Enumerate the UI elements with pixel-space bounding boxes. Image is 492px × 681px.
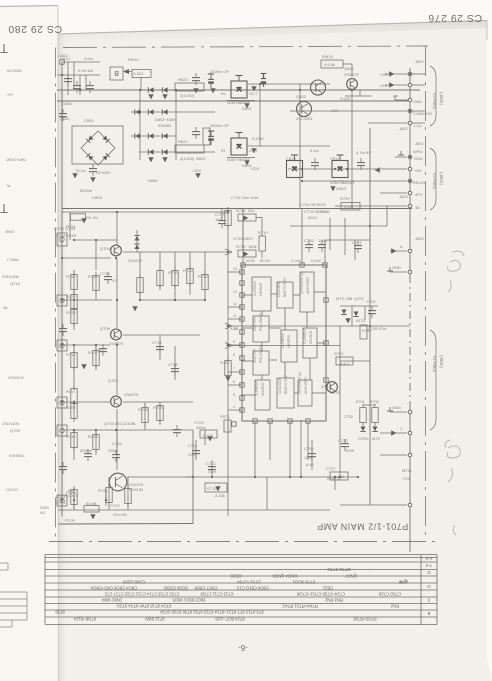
svg-text:13: 13	[233, 290, 237, 294]
svg-text:C713: C713	[56, 500, 66, 505]
svg-text:A 470: A 470	[203, 433, 214, 438]
svg-text:BOOTSTRAP: BOOTSTRAP	[283, 277, 287, 297]
svg-text:51mB: 51mB	[86, 501, 97, 506]
svg-text:QT06: QT06	[100, 326, 111, 331]
svg-text:-0.1mV: -0.1mV	[290, 259, 302, 263]
svg-text:+B4: +B4	[414, 168, 422, 173]
svg-text:R715: R715	[207, 486, 217, 491]
svg-text:DIFFERENTIAL: DIFFERENTIAL	[298, 371, 302, 394]
svg-text:OO/CD: OO/CD	[6, 488, 18, 492]
svg-text:C726 06 R022: C726 06 R022	[300, 202, 327, 207]
svg-text:R724: R724	[183, 268, 193, 273]
svg-text:GND: GND	[413, 99, 422, 104]
svg-text:MIRROR: MIRROR	[259, 282, 263, 296]
svg-text:OUT: OUT	[249, 91, 258, 96]
svg-text:NJM79M05F: NJM79M05F	[227, 157, 250, 162]
svg-text:A 4.7: A 4.7	[340, 361, 350, 366]
svg-text:O5O5: O5O5	[230, 574, 242, 579]
svg-text:51k: 51k	[248, 208, 254, 213]
svg-text:OTTO 9TTO: OTTO 9TTO	[327, 567, 351, 572]
svg-text:NF: NF	[2, 306, 8, 310]
svg-text:OTRL: OTRL	[358, 436, 369, 441]
svg-text:C707: C707	[326, 466, 336, 471]
svg-text:8T24 8OT~1O8: 8T24 8OT~1O8	[215, 617, 245, 622]
svg-text:14: 14	[233, 267, 237, 271]
svg-text:BOOTSTRAP: BOOTSTRAP	[284, 374, 288, 394]
svg-text:Q705 2SC2240BL: Q705 2SC2240BL	[104, 421, 137, 426]
svg-text:CS 29 276: CS 29 276	[428, 12, 482, 24]
svg-text:(J801): (J801)	[439, 172, 444, 185]
svg-text:AMPLIFIER: AMPLIFIER	[306, 276, 310, 294]
svg-text:QT09: QT09	[10, 428, 21, 433]
svg-text:+22V: +22V	[192, 168, 202, 173]
svg-text:9TO4 9T18 9TW~9T3A 9T2O: 9TO4 9T18 9TW~9T3A 9T2O	[116, 604, 172, 609]
svg-text:+51.5V: +51.5V	[85, 215, 98, 220]
svg-text:A-V: A-V	[425, 556, 432, 561]
svg-text:GND: GND	[392, 265, 401, 270]
svg-text:QT8: QT8	[399, 580, 408, 585]
svg-text:P701-1/2 MAIN AMP: P701-1/2 MAIN AMP	[317, 522, 409, 532]
svg-text:BTZ1: BTZ1	[356, 318, 367, 323]
svg-text:A 324: A 324	[133, 71, 144, 76]
svg-text:9: 9	[233, 340, 235, 344]
svg-text:CURRENT: CURRENT	[253, 280, 257, 296]
svg-text:10: 10	[233, 327, 237, 331]
svg-text:D802~D809: D802~D809	[155, 117, 177, 122]
svg-text:FOLLOWER: FOLLOWER	[259, 312, 263, 331]
svg-text:CURRENT: CURRENT	[255, 380, 259, 396]
svg-text:7: 7	[233, 367, 235, 371]
svg-text:C723 C715 C714 C721 C722 C717: C723 C715 C714 C721 C722 C717 C72	[104, 592, 179, 597]
svg-text:+22V: +22V	[250, 166, 260, 171]
svg-text:SOURCE: SOURCE	[261, 382, 265, 396]
svg-text:22m: 22m	[208, 469, 216, 474]
svg-text:9T12 9W9: 9T12 9W9	[145, 617, 165, 622]
svg-text:C80b: C80b	[62, 101, 72, 106]
svg-text:EMITTER: EMITTER	[253, 316, 257, 331]
svg-text:2SD678: 2SD678	[344, 72, 359, 77]
svg-text:QT10: QT10	[10, 281, 21, 286]
svg-text:C802: C802	[58, 53, 68, 58]
svg-text:S1+B20: S1+B20	[96, 170, 111, 175]
svg-text:9T35: 9T35	[55, 610, 65, 615]
svg-text:C758: C758	[304, 446, 314, 451]
svg-text:RTN4+RT21 RT4G: RTN4+RT21 RT4G	[282, 604, 318, 609]
svg-text:6: 6	[233, 380, 235, 384]
svg-text:Q803: Q803	[296, 94, 307, 99]
svg-text:C719: C719	[112, 441, 122, 446]
svg-text:99O3 99O1 99O5: 99O3 99O1 99O5	[172, 598, 206, 603]
svg-text:SOURCE: SOURCE	[309, 330, 313, 344]
svg-text:C80A: C80A	[92, 195, 102, 200]
svg-text:C724~C728 C7O1~C7O8: C724~C728 C7O1~C7O8	[296, 592, 345, 597]
svg-text:C810: C810	[286, 156, 296, 161]
svg-text:2SD1406: 2SD1406	[2, 274, 19, 279]
svg-text:C774: C774	[352, 240, 362, 245]
svg-text:0.6: 0.6	[112, 278, 118, 283]
svg-text:RM15: RM15	[322, 54, 333, 59]
svg-text:103: 103	[188, 452, 195, 457]
svg-text:4.7m 6V: 4.7m 6V	[356, 150, 371, 155]
svg-text:A 6.8k: A 6.8k	[324, 62, 335, 67]
svg-text:C724 22m 6.66: C724 22m 6.66	[231, 195, 259, 200]
svg-text:R721: R721	[98, 488, 108, 493]
svg-text:D80b: D80b	[148, 178, 158, 183]
svg-text:8: 8	[233, 353, 235, 357]
svg-text:OO99 O3OO: OO99 O3OO	[163, 586, 188, 591]
svg-text:2SA970: 2SA970	[128, 258, 143, 263]
svg-text:R725: R725	[168, 270, 178, 275]
svg-text:+5.1A: +5.1A	[75, 168, 86, 173]
svg-text:0(1/2W): 0(1/2W)	[180, 156, 195, 161]
svg-text:CASCODE: CASCODE	[278, 378, 282, 394]
svg-text:R722: R722	[198, 274, 208, 279]
svg-text:C710 3300: C710 3300	[233, 236, 253, 241]
svg-text:D803: D803	[336, 186, 346, 191]
svg-text:0.0m: 0.0m	[84, 56, 94, 61]
svg-text:1008: 1008	[318, 238, 328, 243]
svg-text:QT03 QT04: QT03 QT04	[54, 226, 76, 231]
svg-text:J: J	[400, 426, 402, 431]
svg-text:C8O7 C8O8: C8O7 C8O8	[194, 586, 218, 591]
svg-text:3300m OF: 3300m OF	[210, 123, 229, 128]
svg-text:B: B	[114, 69, 119, 76]
svg-text:QNO7: QNO7	[344, 574, 357, 579]
svg-text:R709: R709	[340, 196, 350, 201]
svg-text:4: 4	[233, 405, 235, 409]
svg-text:50.5V: 50.5V	[260, 258, 271, 263]
svg-text:R801: R801	[196, 156, 206, 161]
svg-text:WFi4: WFi4	[413, 149, 423, 154]
svg-text:GND: GND	[414, 156, 423, 161]
svg-text:C729 47m: C729 47m	[368, 326, 387, 331]
svg-text:R723: R723	[66, 490, 76, 495]
svg-text:4B: 4B	[415, 205, 420, 210]
svg-text:R703: R703	[66, 405, 76, 410]
svg-text:C811: C811	[330, 156, 340, 161]
svg-text:2SA970: 2SA970	[124, 392, 139, 397]
svg-text:CB11: CB11	[322, 586, 333, 591]
svg-text:OT61~OT64: OT61~OT64	[237, 580, 261, 585]
svg-text:50.5V: 50.5V	[246, 259, 256, 263]
svg-text:FOLLOWER: FOLLOWER	[259, 344, 263, 363]
svg-text:R736: R736	[88, 274, 98, 279]
svg-text:C8O4 C8O5 C8O~C8O4: C8O4 C8O5 C8O~C8O4	[90, 586, 137, 591]
svg-text:PL: PL	[6, 184, 10, 188]
svg-text:J803: J803	[415, 236, 424, 241]
svg-text:A DB: A DB	[344, 204, 353, 209]
svg-text:To PB01: To PB01	[432, 172, 437, 190]
svg-text:2SD1406: 2SD1406	[2, 421, 19, 426]
svg-text:556985: 556985	[158, 123, 172, 128]
svg-text:DIFFERENTIAL: DIFFERENTIAL	[300, 271, 304, 294]
svg-text:-15V: -15V	[379, 83, 388, 88]
svg-text:9TTB 9OO2: 9TTB 9OO2	[292, 580, 315, 585]
svg-text:Q702: Q702	[354, 296, 365, 301]
svg-text:T: T	[0, 41, 8, 56]
svg-text:COMMON: COMMON	[413, 111, 432, 116]
svg-text:180k: 180k	[248, 244, 257, 249]
svg-text:To PB01: To PB01	[432, 92, 437, 110]
svg-text:T: T	[0, 201, 8, 216]
svg-text:5: 5	[233, 393, 235, 397]
svg-text:0.0m AA: 0.0m AA	[78, 68, 93, 73]
svg-text:MT2: MT2	[372, 436, 381, 441]
svg-text:C73O C729: C73O C729	[378, 592, 401, 597]
svg-text:NC: NC	[40, 510, 46, 515]
svg-text:8200m: 8200m	[80, 188, 93, 193]
svg-text:335m: 335m	[108, 448, 119, 453]
svg-text:C702: C702	[366, 299, 376, 304]
svg-text:NJM78M05F: NJM78M05F	[227, 100, 250, 105]
svg-text:J801: J801	[415, 141, 424, 146]
svg-text:-6-: -6-	[238, 643, 248, 652]
svg-text:CS 29 280: CS 29 280	[8, 23, 62, 35]
svg-text:0.63V: 0.63V	[340, 96, 351, 101]
svg-text:-0.1mV: -0.1mV	[310, 259, 322, 263]
svg-text:R712: R712	[88, 350, 98, 355]
svg-text:To PB01: To PB01	[432, 355, 437, 373]
svg-text:(J602): (J602)	[439, 92, 444, 105]
svg-text:ZS4B: ZS4B	[5, 230, 15, 234]
svg-text:TAPE-2/DAT: TAPE-2/DAT	[5, 158, 26, 162]
svg-text:C720: C720	[338, 438, 348, 443]
svg-text:IN: IN	[221, 148, 225, 153]
svg-text:R710: R710	[258, 230, 268, 235]
svg-text:JT32: JT32	[402, 476, 412, 481]
svg-text:C713 C711 C7O9: C713 C711 C7O9	[200, 592, 234, 597]
svg-text:RN3 RN2: RN3 RN2	[324, 598, 343, 603]
svg-text:R701: R701	[334, 351, 344, 356]
svg-text:AMPLIFIER: AMPLIFIER	[304, 376, 308, 394]
svg-text:B: B	[427, 611, 430, 616]
svg-text:NJM78M05LF: NJM78M05LF	[330, 180, 356, 185]
svg-text:C805: C805	[84, 118, 94, 123]
svg-text:RN2: RN2	[390, 604, 399, 609]
svg-text:JT32: JT32	[344, 414, 354, 419]
svg-text:OUT: OUT	[249, 148, 258, 153]
svg-text:9T3 9T13 9TT 9T21~9T24 9T23 9T: 9T3 9T13 9TT 9T21~9T24 9T23 9T52 9T36 97…	[160, 610, 264, 615]
svg-text:D: D	[427, 570, 430, 575]
svg-text:REMOTE: REMOTE	[6, 69, 22, 73]
svg-text:MIRROR: MIRROR	[287, 334, 291, 348]
svg-text:R707: R707	[66, 389, 76, 394]
svg-text:C703: C703	[318, 209, 328, 214]
svg-text:ONO4 QNO3: ONO4 QNO3	[272, 574, 298, 579]
svg-text:IN: IN	[221, 91, 225, 96]
svg-text:2200m OF: 2200m OF	[210, 69, 229, 74]
svg-text:C714: C714	[152, 340, 162, 345]
svg-text:R706: R706	[138, 407, 148, 412]
svg-text:R971: R971	[220, 414, 230, 419]
svg-text:L/Jp: L/Jp	[414, 123, 422, 128]
svg-text:+5.1A: +5.1A	[64, 518, 75, 523]
svg-text:12: 12	[233, 302, 237, 306]
svg-text:7-4: 7-4	[425, 563, 432, 568]
svg-text:R714: R714	[236, 208, 246, 213]
svg-text:RELAY: RELAY	[413, 180, 426, 185]
svg-text:2SC4081: 2SC4081	[296, 116, 313, 121]
svg-text:1008: 1008	[304, 455, 314, 460]
svg-text:1008: 1008	[345, 448, 355, 453]
svg-text:C711: C711	[188, 443, 198, 448]
svg-text:VCR/AUX: VCR/AUX	[7, 376, 24, 380]
svg-text:J802: J802	[399, 126, 408, 131]
svg-text:8701: 8701	[356, 399, 366, 404]
svg-text:C776: C776	[304, 238, 314, 243]
svg-text:-22V: -22V	[330, 108, 339, 113]
svg-text:R822: R822	[178, 77, 188, 82]
svg-text:SV8152: SV8152	[129, 487, 144, 492]
svg-text:R732: R732	[66, 274, 76, 279]
svg-text:Q805: Q805	[344, 66, 355, 71]
svg-text:R751: R751	[220, 360, 230, 365]
svg-text:R712: R712	[236, 244, 246, 249]
svg-text:87O5~87O9: 87O5~87O9	[353, 617, 377, 622]
svg-text:CASCODE: CASCODE	[277, 281, 281, 297]
svg-text:4PV: 4PV	[415, 192, 423, 197]
svg-text:D802: D802	[242, 106, 252, 111]
svg-text:87O8~8124: 87O8~8124	[73, 617, 96, 622]
svg-text:103: 103	[215, 217, 222, 222]
svg-text:335m: 335m	[196, 425, 207, 430]
svg-text:6.66: 6.66	[306, 462, 315, 467]
svg-text:R821: R821	[178, 139, 188, 144]
svg-text:0(1/2W): 0(1/2W)	[180, 93, 195, 98]
svg-text:8702: 8702	[370, 399, 380, 404]
svg-text:J803: J803	[399, 194, 408, 199]
svg-text:MT11: MT11	[402, 468, 413, 473]
svg-text:C80b: C80b	[60, 116, 70, 121]
svg-text:C8O9 C81O C13: C8O9 C81O C13	[236, 586, 269, 591]
svg-text:R735: R735	[66, 434, 76, 439]
svg-text:O399 O299: O399 O299	[123, 580, 145, 585]
svg-text:RM10: RM10	[128, 57, 139, 62]
svg-text:onc: onc	[7, 93, 13, 97]
svg-text:11: 11	[233, 314, 237, 318]
svg-text:QT02: QT02	[108, 378, 119, 383]
svg-text:R733: R733	[88, 434, 98, 439]
svg-text:QT04: QT04	[100, 246, 111, 251]
svg-text:EMITTER: EMITTER	[253, 348, 257, 363]
svg-text:MTZ J3B: MTZ J3B	[336, 296, 353, 301]
svg-text:47m 0A: 47m 0A	[113, 512, 127, 517]
svg-text:R726: R726	[66, 310, 76, 315]
svg-text:.: .	[369, 567, 370, 572]
svg-text:C723: C723	[110, 503, 120, 508]
svg-text:C716: C716	[100, 271, 110, 276]
svg-text:2SA970GR: 2SA970GR	[56, 233, 76, 238]
svg-text:TAPE-1: TAPE-1	[7, 258, 19, 262]
svg-text:0.47W: 0.47W	[252, 136, 264, 141]
svg-text:(J802): (J802)	[439, 355, 444, 368]
svg-text:TUNER/A: TUNER/A	[9, 454, 25, 458]
svg-text:A: A	[400, 244, 403, 249]
svg-text:8013: 8013	[308, 215, 318, 220]
svg-text:0.1m: 0.1m	[310, 148, 320, 153]
svg-text:R705: R705	[153, 405, 163, 410]
svg-text:GND: GND	[392, 405, 401, 410]
svg-text:C718: C718	[168, 362, 178, 367]
svg-text:CURRENT: CURRENT	[303, 328, 307, 344]
svg-text:OWO 9W4: OWO 9W4	[101, 598, 122, 603]
svg-text:+15V: +15V	[379, 72, 389, 77]
svg-text:A 33k: A 33k	[215, 493, 225, 498]
svg-text:R729: R729	[66, 294, 76, 299]
svg-text:8200m: 8200m	[80, 448, 93, 453]
svg-text:J802: J802	[415, 59, 424, 64]
svg-text:R716: R716	[66, 352, 76, 357]
svg-text:C712: C712	[206, 461, 216, 466]
